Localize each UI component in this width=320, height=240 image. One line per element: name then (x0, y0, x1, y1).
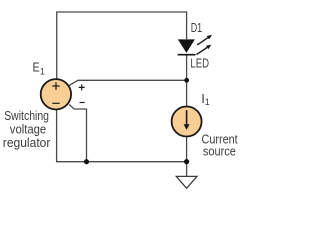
svg-text:source: source (203, 144, 236, 159)
svg-text:regulator: regulator (3, 135, 51, 150)
svg-text:E: E (33, 59, 40, 74)
svg-text:D1: D1 (191, 20, 203, 35)
svg-text:1: 1 (205, 97, 210, 107)
svg-text:Switching: Switching (4, 108, 49, 123)
svg-text:LED: LED (190, 56, 209, 71)
svg-text:1: 1 (40, 67, 45, 77)
